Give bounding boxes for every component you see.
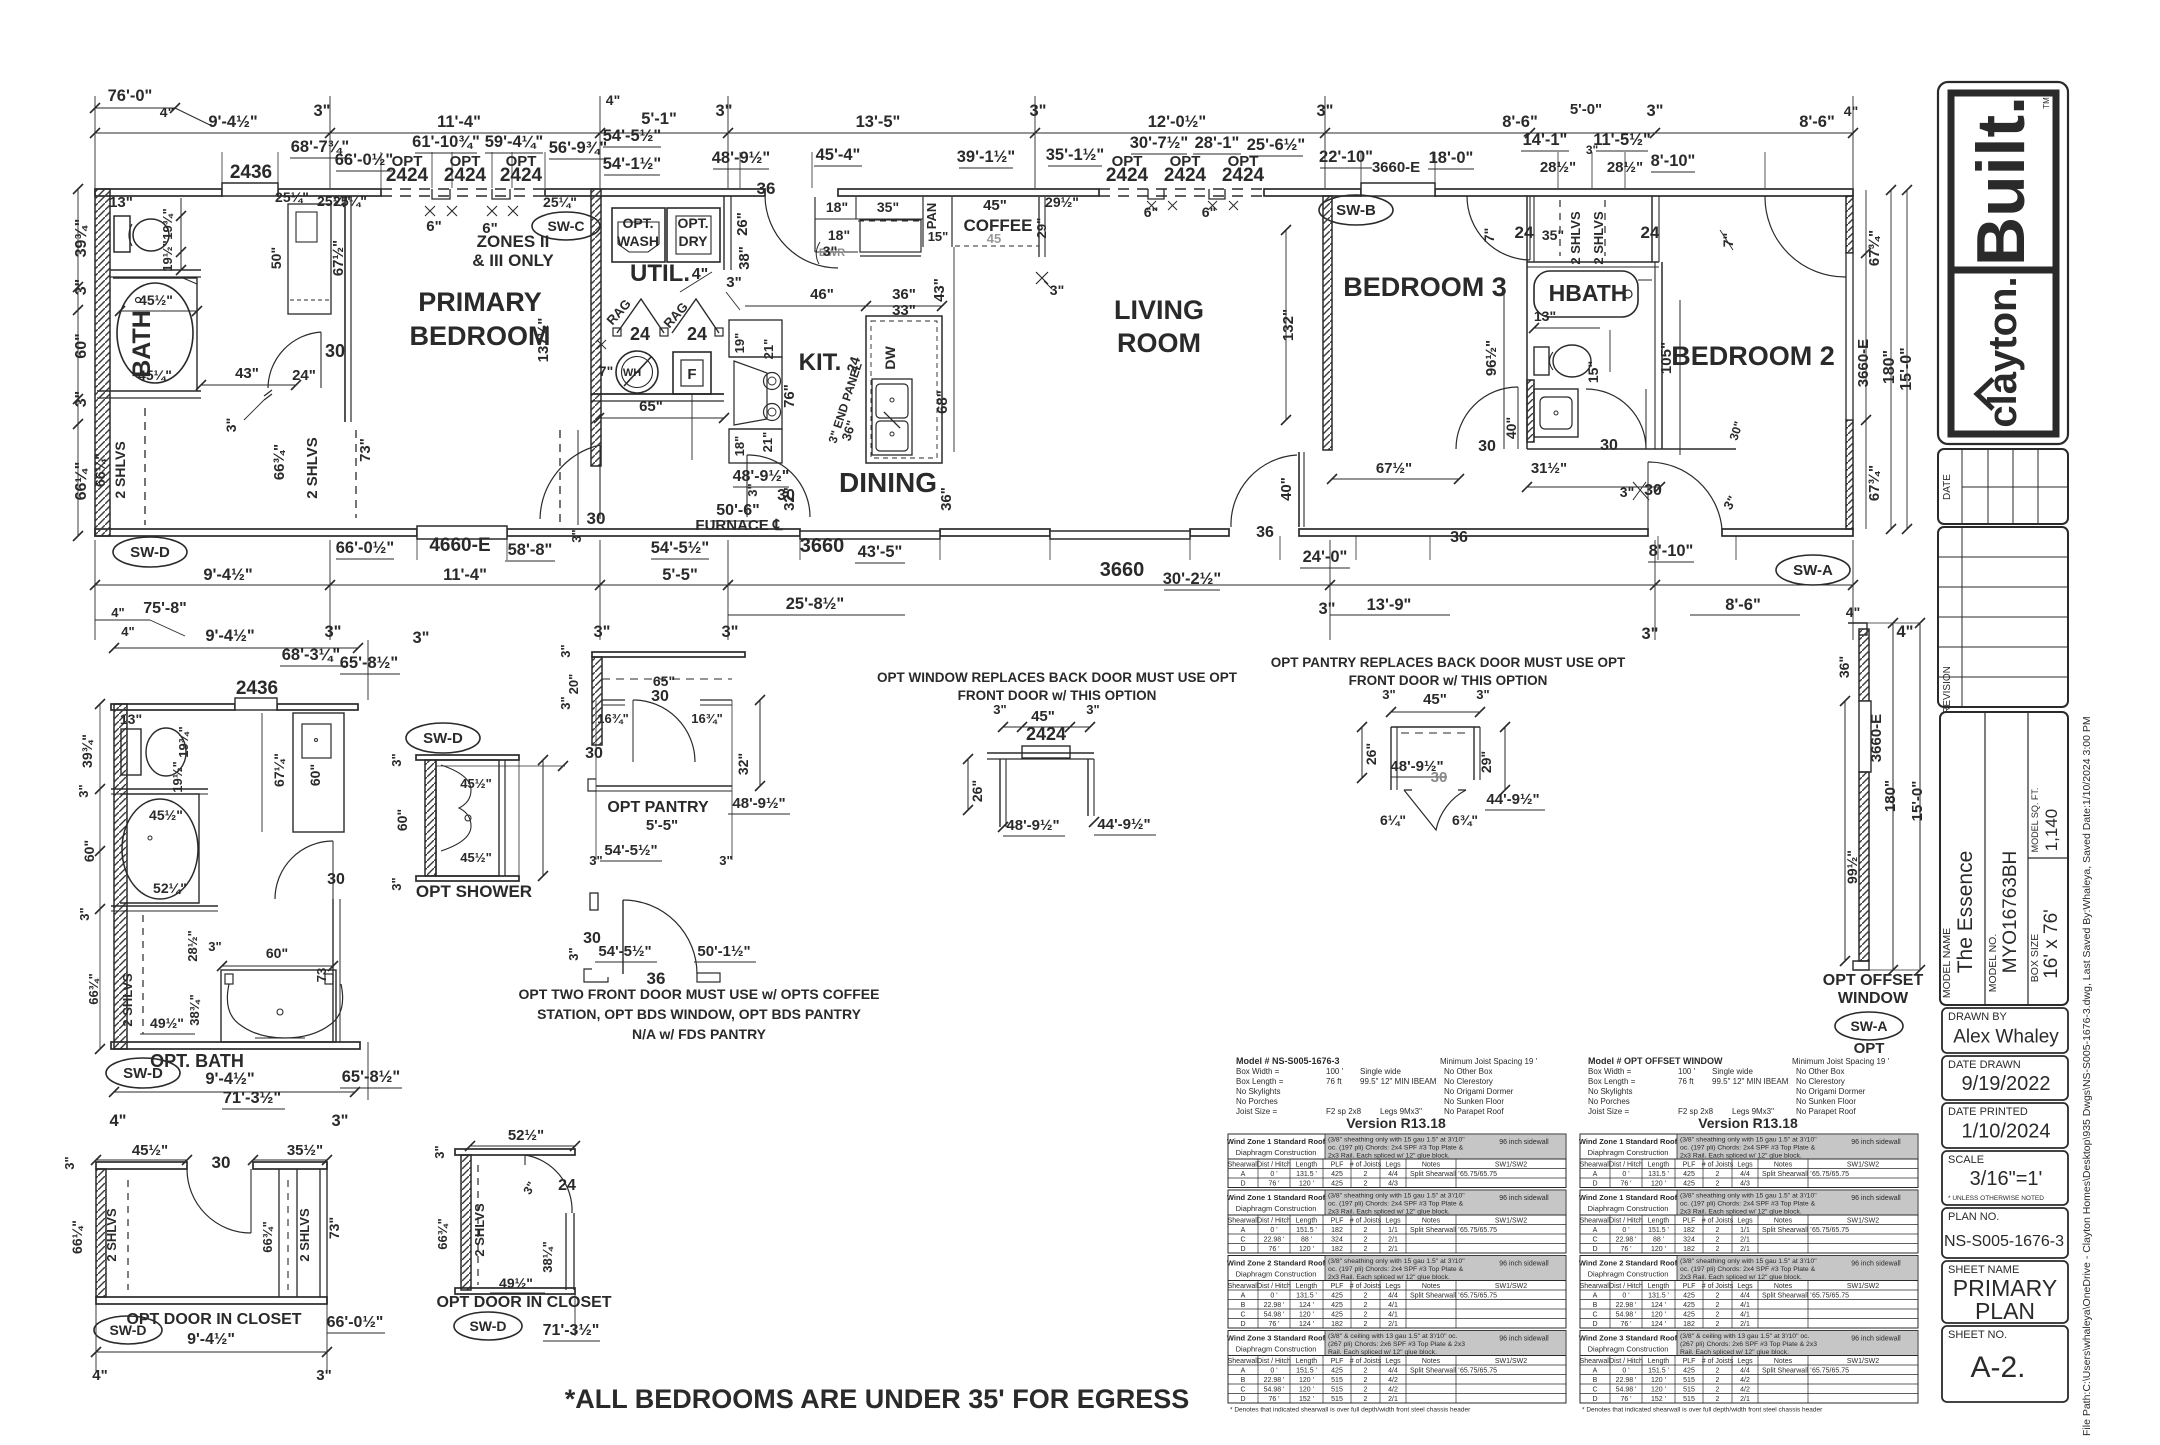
svg-text:13'-9": 13'-9" xyxy=(1367,596,1412,614)
svg-text:3": 3" xyxy=(722,623,739,641)
svg-text:2/1: 2/1 xyxy=(1740,1236,1750,1243)
svg-text:2: 2 xyxy=(1716,1246,1720,1253)
svg-text:Length: Length xyxy=(1296,1161,1318,1168)
svg-text:Notes: Notes xyxy=(1422,1358,1441,1365)
svg-text:38": 38" xyxy=(736,246,753,270)
svg-text:38¾": 38¾" xyxy=(187,994,202,1025)
svg-text:19¾": 19¾" xyxy=(176,726,191,757)
svg-text:4/1: 4/1 xyxy=(1740,1311,1750,1318)
svg-text:SW1/SW2: SW1/SW2 xyxy=(1495,1283,1527,1290)
svg-text:2424: 2424 xyxy=(444,165,487,186)
svg-text:3": 3" xyxy=(1050,282,1064,298)
svg-text:28½": 28½" xyxy=(185,930,200,961)
svg-text:3": 3" xyxy=(1620,484,1634,500)
svg-text:36: 36 xyxy=(1256,524,1274,541)
title block revision table xyxy=(1938,527,2068,707)
svg-text:32": 32" xyxy=(735,753,751,775)
svg-text:Length: Length xyxy=(1296,1217,1318,1224)
svg-text:3660: 3660 xyxy=(800,535,845,557)
svg-text:SW1/SW2: SW1/SW2 xyxy=(1495,1358,1527,1365)
svg-text:2: 2 xyxy=(1716,1180,1720,1187)
svg-text:3": 3" xyxy=(558,696,573,709)
svg-text:88 ': 88 ' xyxy=(1653,1236,1664,1243)
svg-text:MODEL NO.: MODEL NO. xyxy=(1987,934,1999,993)
svg-text:13'-5": 13'-5" xyxy=(856,113,901,131)
svg-text:60": 60" xyxy=(394,809,410,831)
svg-text:3": 3" xyxy=(1476,687,1489,702)
svg-text:88 ': 88 ' xyxy=(1301,1236,1312,1243)
svg-text:oc. (197 pli) Chords: 2x4 SPF: oc. (197 pli) Chords: 2x4 SPF #3 Top Pla… xyxy=(1680,1201,1816,1208)
svg-text:61'-10¾": 61'-10¾" xyxy=(412,133,480,151)
svg-text:54.98 ': 54.98 ' xyxy=(1616,1311,1637,1318)
svg-text:Notes: Notes xyxy=(1774,1161,1793,1168)
svg-text:96 inch sidewall: 96 inch sidewall xyxy=(1851,1261,1901,1268)
svg-text:3": 3" xyxy=(1030,102,1047,120)
svg-text:45¼": 45¼" xyxy=(138,367,172,383)
svg-text:2: 2 xyxy=(1716,1377,1720,1384)
svg-text:30: 30 xyxy=(587,509,606,528)
svg-text:Joist Size =: Joist Size = xyxy=(1588,1107,1629,1116)
title block model boxes xyxy=(1940,712,2068,1005)
svg-text:D: D xyxy=(1240,1396,1245,1403)
svg-text:12'-0½": 12'-0½" xyxy=(1148,113,1207,131)
svg-text:3": 3" xyxy=(716,102,733,120)
svg-text:30: 30 xyxy=(1478,438,1496,455)
svg-text:3": 3" xyxy=(993,702,1006,717)
svg-text:71'-3½": 71'-3½" xyxy=(223,1089,282,1107)
svg-text:4/4: 4/4 xyxy=(1740,1171,1750,1178)
svg-text:OPT: OPT xyxy=(1854,1040,1885,1057)
svg-text:120 ': 120 ' xyxy=(1299,1377,1314,1384)
svg-text:Wind Zone 1 Standard Roof: Wind Zone 1 Standard Roof xyxy=(1227,1193,1326,1202)
svg-text:66¼": 66¼" xyxy=(69,1220,85,1254)
svg-text:C: C xyxy=(1240,1386,1245,1393)
svg-text:(3/8" sheathing only with 15 g: (3/8" sheathing only with 15 gau 1.5" at… xyxy=(1680,1137,1817,1144)
svg-text:2: 2 xyxy=(1364,1321,1368,1328)
svg-text:Minimum Joist Spacing 19 ': Minimum Joist Spacing 19 ' xyxy=(1792,1057,1890,1066)
svg-text:SCALE: SCALE xyxy=(1948,1154,1984,1166)
svg-text:Diaphragm Construction: Diaphragm Construction xyxy=(1236,1204,1317,1213)
svg-text:52½": 52½" xyxy=(508,1127,544,1144)
svg-text:Box Width =: Box Width = xyxy=(1236,1067,1280,1076)
svg-text:(267 pli) Chords: 2x6 SPF #3 T: (267 pli) Chords: 2x6 SPF #3 Top Plate &… xyxy=(1680,1341,1817,1348)
svg-text:File Path:C:\Users\whaleya\One: File Path:C:\Users\whaleya\OneDrive - Cl… xyxy=(2081,716,2093,1436)
scale xyxy=(1942,1151,2068,1205)
svg-text:36": 36" xyxy=(1836,656,1852,678)
svg-text:(3/8" sheathing only with 15 g: (3/8" sheathing only with 15 gau 1.5" at… xyxy=(1328,1258,1465,1265)
svg-text:54'-5½": 54'-5½" xyxy=(604,842,657,859)
svg-text:3": 3" xyxy=(332,1112,349,1130)
svg-text:66¾": 66¾" xyxy=(260,1221,275,1252)
svg-text:58'-8": 58'-8" xyxy=(508,541,553,559)
svg-text:2 SHLVS: 2 SHLVS xyxy=(304,437,321,498)
svg-text:66'-0½": 66'-0½" xyxy=(327,1314,384,1331)
svg-text:46": 46" xyxy=(810,286,834,303)
svg-text:Legs: Legs xyxy=(1737,1283,1753,1290)
svg-text:Notes: Notes xyxy=(1774,1217,1793,1224)
svg-text:2 SHLVS: 2 SHLVS xyxy=(472,1203,487,1257)
svg-text:2424: 2424 xyxy=(386,165,429,186)
svg-text:71'-3½": 71'-3½" xyxy=(543,1322,600,1339)
svg-text:3": 3" xyxy=(745,483,760,496)
svg-text:182: 182 xyxy=(1683,1246,1695,1253)
svg-text:0 ': 0 ' xyxy=(1270,1292,1277,1299)
svg-text:3": 3" xyxy=(413,629,430,647)
svg-text:No Skylights: No Skylights xyxy=(1236,1087,1280,1096)
svg-text:3": 3" xyxy=(594,623,611,641)
svg-text:0 ': 0 ' xyxy=(1270,1171,1277,1178)
svg-text:# of Joists: # of Joists xyxy=(1702,1161,1734,1168)
sheet no xyxy=(1942,1326,2068,1402)
svg-text:425: 425 xyxy=(1331,1171,1343,1178)
svg-text:DW: DW xyxy=(882,346,898,370)
svg-text:oc. (197 pli) Chords: 2x4 SPF: oc. (197 pli) Chords: 2x4 SPF #3 Top Pla… xyxy=(1680,1266,1816,1273)
svg-text:N/A w/ FDS PANTRY: N/A w/ FDS PANTRY xyxy=(632,1026,767,1042)
svg-text:73": 73" xyxy=(357,438,374,462)
svg-text:24: 24 xyxy=(1515,223,1534,242)
svg-text:Diaphragm Construction: Diaphragm Construction xyxy=(1236,1148,1317,1157)
svg-text:120 ': 120 ' xyxy=(1651,1246,1666,1253)
svg-text:18": 18" xyxy=(828,227,850,243)
svg-text:2: 2 xyxy=(1364,1292,1368,1299)
svg-text:65": 65" xyxy=(639,398,663,415)
svg-text:(267 pli) Chords: 2x6 SPF #3 T: (267 pli) Chords: 2x6 SPF #3 Top Plate &… xyxy=(1328,1341,1465,1348)
svg-text:3": 3" xyxy=(76,784,91,797)
main plan outer walls xyxy=(95,189,222,196)
svg-text:Diaphragm Construction: Diaphragm Construction xyxy=(1588,1345,1669,1354)
svg-text:515: 515 xyxy=(1331,1377,1343,1384)
svg-text:SW-B: SW-B xyxy=(1336,202,1376,219)
svg-text:29": 29" xyxy=(1478,751,1494,773)
svg-text:19¾": 19¾" xyxy=(160,208,175,239)
svg-text:Rail. Each spliced w/ 12" glue: Rail. Each spliced w/ 12" glue block. xyxy=(1680,1349,1789,1356)
svg-text:26": 26" xyxy=(734,212,751,236)
svg-text:REVISION: REVISION xyxy=(1942,666,1953,714)
svg-text:9/19/2022: 9/19/2022 xyxy=(1962,1073,2051,1095)
svg-text:ROOM: ROOM xyxy=(1117,328,1201,358)
svg-text:MODEL SQ. FT.: MODEL SQ. FT. xyxy=(2030,788,2040,853)
svg-text:8'-10": 8'-10" xyxy=(1651,152,1696,170)
svg-text:76 ft: 76 ft xyxy=(1678,1077,1694,1086)
svg-text:120 ': 120 ' xyxy=(1299,1386,1314,1393)
svg-text:2/1: 2/1 xyxy=(1388,1246,1398,1253)
svg-text:DATE: DATE xyxy=(1942,474,1953,500)
svg-text:3660-E: 3660-E xyxy=(1855,339,1872,387)
svg-text:WINDOW: WINDOW xyxy=(1838,990,1909,1007)
svg-text:3": 3" xyxy=(389,877,404,890)
svg-text:# of Joists: # of Joists xyxy=(1702,1283,1734,1290)
svg-text:32": 32" xyxy=(781,487,798,511)
svg-text:Diaphragm Construction: Diaphragm Construction xyxy=(1588,1148,1669,1157)
svg-text:4/1: 4/1 xyxy=(1388,1311,1398,1318)
svg-text:96 inch sidewall: 96 inch sidewall xyxy=(1851,1336,1901,1343)
svg-text:2: 2 xyxy=(1364,1377,1368,1384)
svg-text:* Denotes that indicated shear: * Denotes that indicated shearwall is ov… xyxy=(1230,1407,1471,1414)
svg-text:# of Joists: # of Joists xyxy=(1350,1161,1382,1168)
svg-text:D: D xyxy=(1240,1246,1245,1253)
svg-text:BEDROOM 2: BEDROOM 2 xyxy=(1671,341,1835,371)
svg-text:4": 4" xyxy=(1897,623,1914,641)
svg-text:36": 36" xyxy=(892,286,916,303)
svg-text:Shearwall: Shearwall xyxy=(1228,1161,1259,1168)
svg-text:67¼": 67¼" xyxy=(271,753,287,787)
svg-text:515: 515 xyxy=(1683,1386,1695,1393)
svg-text:No Skylights: No Skylights xyxy=(1588,1087,1632,1096)
svg-text:515: 515 xyxy=(1331,1386,1343,1393)
svg-text:76 ': 76 ' xyxy=(1268,1246,1279,1253)
svg-text:96 inch sidewall: 96 inch sidewall xyxy=(1499,1261,1549,1268)
svg-text:39¾": 39¾" xyxy=(73,219,90,258)
svg-text:35": 35" xyxy=(877,199,899,215)
svg-text:OPT WINDOW REPLACES BACK DOOR: OPT WINDOW REPLACES BACK DOOR MUST USE O… xyxy=(877,670,1238,685)
svg-text:67¾": 67¾" xyxy=(1866,465,1883,501)
svg-text:Wind Zone 2 Standard Roof: Wind Zone 2 Standard Roof xyxy=(1579,1259,1678,1268)
svg-text:120 ': 120 ' xyxy=(1299,1246,1314,1253)
svg-text:59'-4¼": 59'-4¼" xyxy=(485,133,544,151)
svg-text:2/1: 2/1 xyxy=(1740,1321,1750,1328)
svg-text:4/3: 4/3 xyxy=(1740,1180,1750,1187)
svg-text:16¾": 16¾" xyxy=(597,711,628,726)
svg-text:Notes: Notes xyxy=(1422,1217,1441,1224)
svg-text:Legs: Legs xyxy=(1737,1358,1753,1365)
svg-text:C: C xyxy=(1240,1236,1245,1243)
svg-text:67¾": 67¾" xyxy=(1866,230,1883,266)
svg-text:124 ': 124 ' xyxy=(1299,1302,1314,1309)
svg-text:5'-0": 5'-0" xyxy=(1570,101,1602,118)
svg-text:Single wide: Single wide xyxy=(1360,1067,1401,1076)
svg-text:4/4: 4/4 xyxy=(1388,1367,1398,1374)
svg-text:68'-3¼": 68'-3¼" xyxy=(282,646,341,664)
svg-text:2: 2 xyxy=(1716,1302,1720,1309)
svg-text:0 ': 0 ' xyxy=(1270,1367,1277,1374)
extra extension lines top xyxy=(221,152,223,188)
title block date table xyxy=(1938,449,2068,524)
svg-text:24: 24 xyxy=(687,324,707,344)
svg-text:180": 180" xyxy=(1882,780,1899,812)
svg-text:NS-S005-1676-3: NS-S005-1676-3 xyxy=(1944,1233,2064,1250)
svg-text:68": 68" xyxy=(934,390,951,414)
svg-text:1,140: 1,140 xyxy=(2042,809,2061,852)
svg-text:54'-5½": 54'-5½" xyxy=(603,127,662,145)
svg-text:33": 33" xyxy=(892,302,916,319)
svg-text:515: 515 xyxy=(1683,1377,1695,1384)
date printed xyxy=(1942,1103,2068,1148)
svg-text:3": 3" xyxy=(432,1145,447,1158)
svg-text:Length: Length xyxy=(1296,1283,1318,1290)
svg-text:Split Shearwall ': Split Shearwall ' xyxy=(1762,1171,1812,1178)
svg-text:Wind Zone 3 Standard Roof: Wind Zone 3 Standard Roof xyxy=(1227,1334,1326,1343)
svg-text:D: D xyxy=(1240,1321,1245,1328)
svg-text:30: 30 xyxy=(212,1153,231,1172)
svg-text:DRAWN BY: DRAWN BY xyxy=(1948,1011,2008,1023)
svg-text:3": 3" xyxy=(208,939,221,954)
svg-text:Wind Zone 3 Standard Roof: Wind Zone 3 Standard Roof xyxy=(1579,1334,1678,1343)
svg-text:Dist / Hitch: Dist / Hitch xyxy=(1609,1217,1643,1224)
svg-text:Shearwall: Shearwall xyxy=(1228,1283,1259,1290)
svg-text:D: D xyxy=(1592,1321,1597,1328)
svg-text:2: 2 xyxy=(1716,1386,1720,1393)
svg-text:PLF: PLF xyxy=(1683,1161,1696,1168)
svg-text:73": 73" xyxy=(326,1217,342,1239)
svg-text:120 ': 120 ' xyxy=(1651,1377,1666,1384)
svg-text:3": 3" xyxy=(1317,102,1334,120)
svg-text:Shearwall: Shearwall xyxy=(1228,1217,1259,1224)
svg-text:2 SHLVS: 2 SHLVS xyxy=(1568,211,1583,265)
kitchen xyxy=(729,320,782,357)
svg-text:Split Shearwall ': Split Shearwall ' xyxy=(1410,1171,1460,1178)
svg-text:99½": 99½" xyxy=(1844,850,1860,884)
svg-text:3660-E: 3660-E xyxy=(1868,714,1885,762)
svg-text:Dist / Hitch: Dist / Hitch xyxy=(1257,1358,1291,1365)
svg-text:180": 180" xyxy=(1881,350,1898,384)
svg-text:3": 3" xyxy=(823,243,837,259)
svg-text:35": 35" xyxy=(1542,227,1564,243)
svg-text:2 SHLVS: 2 SHLVS xyxy=(112,441,128,498)
svg-text:30: 30 xyxy=(325,341,345,361)
svg-text:131.5 ': 131.5 ' xyxy=(1296,1171,1317,1178)
svg-text:152 ': 152 ' xyxy=(1299,1396,1314,1403)
svg-text:24'-0": 24'-0" xyxy=(1303,548,1348,566)
svg-text:Notes: Notes xyxy=(1422,1161,1441,1168)
svg-text:Split Shearwall ': Split Shearwall ' xyxy=(1762,1292,1812,1299)
svg-text:39¾": 39¾" xyxy=(79,734,95,768)
svg-text:4660-E: 4660-E xyxy=(429,535,490,556)
svg-text:45½": 45½" xyxy=(460,850,491,865)
svg-text:96 inch sidewall: 96 inch sidewall xyxy=(1499,1336,1549,1343)
svg-text:OPT.: OPT. xyxy=(622,215,653,231)
svg-text:65.75/65.75: 65.75/65.75 xyxy=(1812,1292,1849,1299)
svg-text:# of Joists: # of Joists xyxy=(1350,1358,1382,1365)
svg-text:6¼": 6¼" xyxy=(1380,812,1406,828)
svg-text:Diaphragm Construction: Diaphragm Construction xyxy=(1236,1345,1317,1354)
svg-text:15": 15" xyxy=(928,229,949,244)
svg-text:22.98 ': 22.98 ' xyxy=(1264,1236,1285,1243)
svg-text:FRONT DOOR w/ THIS OPTION: FRONT DOOR w/ THIS OPTION xyxy=(1349,673,1548,688)
svg-text:4/2: 4/2 xyxy=(1388,1377,1398,1384)
svg-text:48'-9½": 48'-9½" xyxy=(1006,817,1059,834)
svg-text:2/1: 2/1 xyxy=(1388,1396,1398,1403)
svg-text:2/1: 2/1 xyxy=(1388,1321,1398,1328)
svg-text:No Porches: No Porches xyxy=(1236,1097,1278,1106)
svg-text:2x3 Rail. Each spliced w/ 12": 2x3 Rail. Each spliced w/ 12" glue block… xyxy=(1328,1209,1450,1216)
svg-text:66¼": 66¼" xyxy=(73,462,90,501)
svg-text:30: 30 xyxy=(1431,769,1448,786)
svg-text:515: 515 xyxy=(1331,1396,1343,1403)
svg-text:38¼": 38¼" xyxy=(540,1241,555,1272)
svg-text:56'-9¾": 56'-9¾" xyxy=(549,139,608,157)
svg-text:PLF: PLF xyxy=(1331,1283,1344,1290)
svg-text:4": 4" xyxy=(121,624,134,639)
svg-text:BEDROOM: BEDROOM xyxy=(410,321,551,351)
svg-text:OPT SHOWER: OPT SHOWER xyxy=(416,882,532,901)
svg-text:29": 29" xyxy=(1034,218,1049,239)
svg-text:45½": 45½" xyxy=(139,292,173,308)
svg-text:No Other Box: No Other Box xyxy=(1444,1067,1492,1076)
svg-text:3": 3" xyxy=(726,274,741,291)
svg-text:4": 4" xyxy=(1844,103,1858,119)
svg-text:45½": 45½" xyxy=(149,807,183,823)
svg-text:Legs: Legs xyxy=(1385,1283,1401,1290)
sheet name xyxy=(1942,1261,2068,1323)
svg-text:124 ': 124 ' xyxy=(1299,1321,1314,1328)
svg-text:PLAN NO.: PLAN NO. xyxy=(1948,1211,1999,1223)
svg-text:No Clerestory: No Clerestory xyxy=(1444,1077,1493,1086)
svg-text:76 ': 76 ' xyxy=(1620,1180,1631,1187)
svg-text:2: 2 xyxy=(1716,1321,1720,1328)
svg-text:31½": 31½" xyxy=(1531,460,1567,477)
svg-text:No Parapet Roof: No Parapet Roof xyxy=(1796,1107,1856,1116)
svg-text:A: A xyxy=(1593,1367,1598,1374)
svg-text:TM: TM xyxy=(2042,97,2051,109)
svg-text:F: F xyxy=(687,366,696,383)
svg-text:PLF: PLF xyxy=(1331,1161,1344,1168)
svg-text:DATE PRINTED: DATE PRINTED xyxy=(1948,1106,2028,1118)
svg-text:oc. (197 pli) Chords: 2x4 SPF: oc. (197 pli) Chords: 2x4 SPF #3 Top Pla… xyxy=(1328,1145,1464,1152)
svg-text:Notes: Notes xyxy=(1774,1358,1793,1365)
bottom dimension rows of main plan xyxy=(113,537,187,567)
svg-text:Box Width =: Box Width = xyxy=(1588,1067,1632,1076)
svg-text:76'-0": 76'-0" xyxy=(108,87,153,105)
svg-text:66¾": 66¾" xyxy=(86,973,101,1004)
svg-text:Minimum Joist Spacing 19 ': Minimum Joist Spacing 19 ' xyxy=(1440,1057,1538,1066)
svg-text:B: B xyxy=(1241,1302,1246,1309)
svg-text:4/4: 4/4 xyxy=(1740,1292,1750,1299)
svg-text:A-2.: A-2. xyxy=(1970,1351,2025,1384)
svg-text:9'-4½": 9'-4½" xyxy=(187,1331,235,1348)
svg-text:40": 40" xyxy=(1503,417,1519,439)
svg-text:2: 2 xyxy=(1364,1246,1368,1253)
svg-text:SW-D: SW-D xyxy=(469,1318,506,1334)
svg-text:4": 4" xyxy=(92,1367,107,1384)
svg-text:MYO16763BH: MYO16763BH xyxy=(2000,851,2021,974)
svg-text:Legs: Legs xyxy=(1385,1217,1401,1224)
svg-text:9'-4½": 9'-4½" xyxy=(205,627,254,645)
svg-text:5'-5": 5'-5" xyxy=(646,817,678,834)
svg-text:BOX SIZE: BOX SIZE xyxy=(2029,934,2041,982)
svg-text:65'-8½": 65'-8½" xyxy=(342,1068,401,1086)
svg-text:11'-5½": 11'-5½" xyxy=(1593,131,1651,149)
svg-text:24: 24 xyxy=(1641,223,1660,242)
svg-text:2: 2 xyxy=(1364,1386,1368,1393)
svg-text:96 inch sidewall: 96 inch sidewall xyxy=(1499,1195,1549,1202)
svg-text:DATE DRAWN: DATE DRAWN xyxy=(1948,1059,2021,1071)
svg-text:OPT PANTRY: OPT PANTRY xyxy=(607,799,709,816)
svg-text:(3/8" sheathing only with 15 g: (3/8" sheathing only with 15 gau 1.5" at… xyxy=(1680,1258,1817,1265)
svg-text:UTIL.: UTIL. xyxy=(630,260,690,287)
svg-text:25¼": 25¼" xyxy=(275,189,309,205)
svg-text:(3/8" sheathing only with 15 g: (3/8" sheathing only with 15 gau 1.5" at… xyxy=(1328,1137,1465,1144)
svg-text:44'-9½": 44'-9½" xyxy=(1486,791,1539,808)
svg-text:22.98 ': 22.98 ' xyxy=(1616,1236,1637,1243)
svg-text:A: A xyxy=(1593,1171,1598,1178)
svg-text:425: 425 xyxy=(1683,1367,1695,1374)
svg-text:76 ': 76 ' xyxy=(1620,1246,1631,1253)
svg-text:2: 2 xyxy=(1364,1396,1368,1403)
svg-text:100 ': 100 ' xyxy=(1326,1067,1344,1076)
svg-text:Legs: Legs xyxy=(1385,1358,1401,1365)
svg-text:425: 425 xyxy=(1331,1311,1343,1318)
svg-text:PLF: PLF xyxy=(1683,1358,1696,1365)
svg-text:4": 4" xyxy=(606,92,620,108)
svg-text:3/16"=1': 3/16"=1' xyxy=(1970,1168,2043,1190)
svg-text:182: 182 xyxy=(1683,1227,1695,1234)
svg-text:54'-5½": 54'-5½" xyxy=(651,539,710,557)
svg-text:2 SHLVS: 2 SHLVS xyxy=(104,1208,119,1262)
svg-text:C: C xyxy=(1240,1311,1245,1318)
svg-text:2x3 Rail. Each spliced w/ 12": 2x3 Rail. Each spliced w/ 12" glue block… xyxy=(1680,1209,1802,1216)
svg-text:4": 4" xyxy=(692,266,708,283)
svg-text:Dist / Hitch: Dist / Hitch xyxy=(1257,1217,1291,1224)
